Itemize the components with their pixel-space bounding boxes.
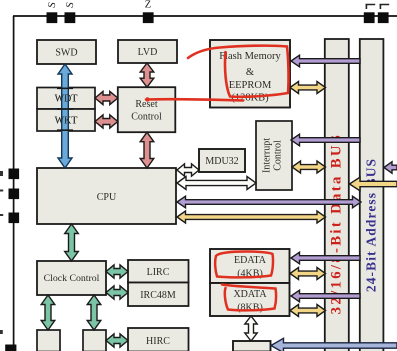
svg-text:HIRC: HIRC	[146, 336, 170, 347]
arrow: CPU to MDU32 (white)	[177, 164, 199, 176]
block Clock Control	[37, 261, 106, 295]
bus bar: 32/16/8-Bit Data BUS	[325, 39, 349, 351]
arrow: Clock Control to xtal2 (green)	[87, 295, 101, 330]
pin label fragment L3	[0, 214, 3, 216]
block EDATA (4KB)	[210, 249, 290, 283]
arrow: Reset Control to CPU (pink)	[140, 132, 154, 168]
arrow: peripheral to bottom block (steel blue)	[271, 338, 397, 351]
arrow: Clock Control to xtal1 (green)	[41, 295, 55, 330]
svg-text:Flash Memory: Flash Memory	[219, 51, 281, 62]
bus bar: 24-Bit Address BUS	[360, 39, 384, 351]
block IRC48M	[128, 283, 189, 307]
block Reset Control	[118, 87, 176, 132]
arrow: WDT to Reset Control (pink)	[95, 91, 118, 104]
pin: top pad T2	[378, 12, 389, 23]
arrow: Clock Control to LIRC (green)	[106, 265, 128, 278]
pin label T2	[380, 5, 390, 10]
pin: left pad L2	[9, 189, 20, 200]
arrow: CPU to Interrupt Control (white)	[177, 177, 256, 190]
svg-text:EEPROM: EEPROM	[229, 80, 272, 91]
pin label fragment L4	[0, 330, 3, 334]
arrow: XDATA to Data BUS (yellow)	[290, 305, 326, 317]
pin: top pad S1	[47, 12, 58, 23]
pin: top pad Z	[143, 12, 154, 23]
arrow: Flash to Data BUS (yellow)	[290, 82, 326, 94]
annotation: red loop around XDATA (8KB)	[222, 285, 276, 311]
pin: bottom-left pad	[5, 345, 16, 351]
arrow: EDATA to Data BUS (yellow)	[290, 268, 326, 280]
arrow: CPU to Address BUS (purple)	[177, 196, 361, 208]
pin: top pad S2	[65, 12, 76, 23]
pin label fragment L1	[0, 171, 3, 176]
svg-text:Z: Z	[145, 0, 151, 11]
pin label fragment L2	[0, 190, 3, 192]
wire: left vertical bus line	[13, 16, 15, 351]
svg-text:MDU32: MDU32	[205, 156, 238, 167]
arrow: XDATA to bottom block (white)	[245, 316, 257, 341]
arrow: Address BUS to EDATA (purple)	[291, 252, 360, 264]
svg-text:Clock Control: Clock Control	[44, 273, 100, 284]
arrow: CPU to Clock Control (green)	[65, 224, 79, 261]
svg-text:XDATA: XDATA	[233, 289, 267, 300]
svg-text:LIRC: LIRC	[147, 267, 170, 278]
arrow: CPU to Data BUS (yellow)	[177, 211, 326, 223]
arrow: SWD to CPU (blue)	[58, 64, 72, 168]
pin: left pad L1	[9, 169, 20, 180]
block xtal2 (bottom-left, cut off)	[83, 330, 106, 351]
svg-text:CPU: CPU	[97, 192, 117, 203]
wire: top horizontal bus line	[13, 15, 397, 17]
arrow: Clock Control to IRC48M (green)	[106, 286, 128, 299]
arrow: WKT to Reset Control (pink)	[95, 115, 118, 128]
block Flash Memory & EEPROM (128KB)	[210, 40, 290, 108]
arrow: Address BUS to Flash (purple)	[291, 55, 360, 67]
block bottom-right (cut off)	[233, 341, 271, 351]
block WKT	[37, 109, 95, 131]
arrow: LVD to Reset Control (pink)	[140, 63, 154, 87]
wire: WDT/WKT borders over blue arrow	[57, 88, 73, 130]
block xtal1 (bottom-left, cut off)	[37, 330, 60, 351]
block LVD	[118, 40, 177, 63]
pin label T1	[366, 5, 376, 10]
svg-text:IRC48M: IRC48M	[140, 290, 176, 301]
block SWD	[37, 40, 96, 64]
arrow: Data BUS right stub (yellow)	[350, 177, 397, 191]
block CPU	[37, 168, 176, 224]
svg-text:Interrupt: Interrupt	[262, 138, 273, 173]
svg-text:LVD: LVD	[138, 47, 158, 58]
arrow: Address BUS right stub (purple)	[384, 162, 397, 174]
block XDATA (8KB)	[210, 283, 290, 316]
svg-text:WKT: WKT	[55, 116, 78, 127]
block WDT	[37, 88, 95, 110]
block HIRC	[128, 328, 189, 351]
arrow: Address BUS to Interrupt Control (purple)	[291, 134, 360, 146]
svg-text:SWD: SWD	[55, 48, 77, 59]
arrow: xtal2 to HIRC (green)	[106, 334, 128, 347]
pin: left pad L3	[9, 213, 20, 224]
block Interrupt Control	[256, 121, 292, 190]
svg-text:24-Bit Address BUS: 24-Bit Address BUS	[364, 158, 379, 292]
annotation: red circle around Flash Memory & EEPROM	[188, 46, 289, 97]
svg-text:Control: Control	[131, 112, 162, 123]
svg-text:32/16/8-Bit Data BUS: 32/16/8-Bit Data BUS	[329, 133, 345, 315]
svg-text:(8KB): (8KB)	[237, 303, 263, 314]
svg-text:Control: Control	[273, 140, 284, 171]
block LIRC	[128, 260, 189, 283]
arrow: Interrupt Control to Data BUS (yellow)	[292, 161, 326, 173]
pin: top pad T1	[364, 12, 375, 23]
svg-text:EDATA: EDATA	[234, 255, 267, 266]
annotation: red tail line to Reset Control	[146, 99, 243, 100]
arrow: Address BUS to XDATA (purple)	[291, 290, 360, 302]
svg-text:&: &	[246, 67, 254, 78]
annotation: red loop around EDATA (4KB)	[215, 252, 273, 278]
svg-text:WDT: WDT	[55, 94, 78, 105]
block MDU32	[199, 149, 245, 172]
